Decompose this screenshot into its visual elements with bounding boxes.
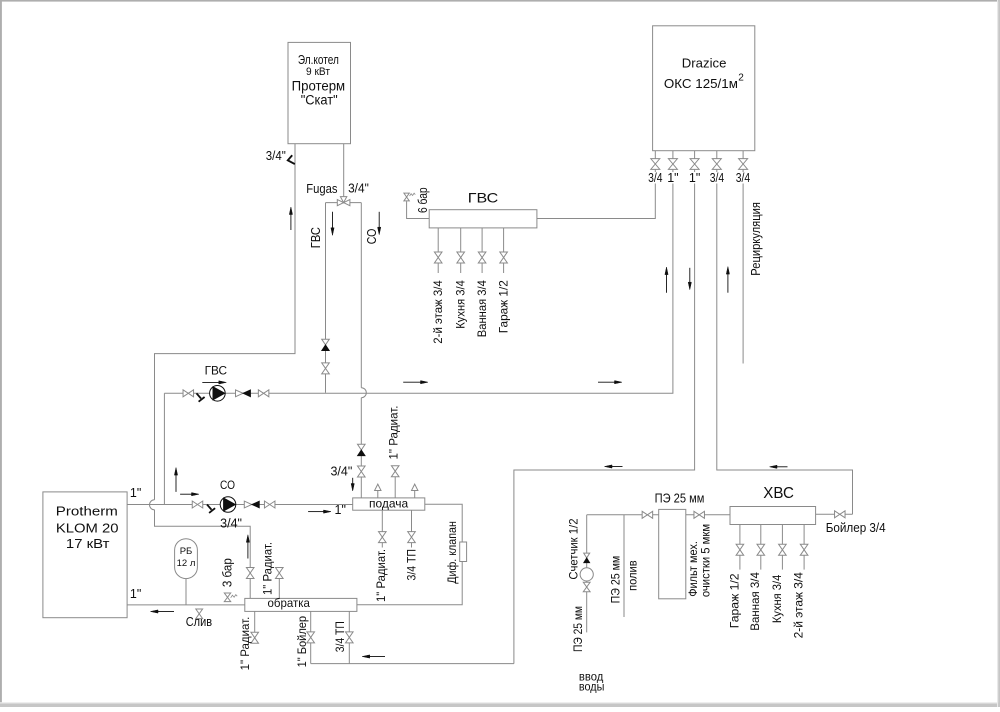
filter box (659, 509, 686, 598)
arrow down SO branch (378, 212, 381, 235)
label SO branch rotated (365, 228, 379, 244)
boiler el.kotel Protherm Skat box (288, 42, 351, 143)
tank Drazice OKC box (653, 26, 755, 151)
svg-text:6 бар: 6 бар (416, 187, 430, 213)
label HVS title (763, 485, 794, 502)
svg-text:воды: воды (579, 679, 605, 693)
valve obratka bottom TP (346, 632, 354, 643)
label GVS pump (205, 366, 227, 378)
air vent podacha 2 (412, 484, 418, 490)
arrow up obratka riser (246, 535, 249, 559)
wire: Protherm supply to SO pump to podacha (127, 504, 353, 506)
svg-text:2: 2 (738, 73, 744, 84)
label filter rotated (686, 524, 712, 597)
svg-text:3/4": 3/4" (330, 465, 352, 479)
wire: HVS manifold drop Garazh (739, 525, 741, 570)
svg-text:Гараж 1/2: Гараж 1/2 (727, 573, 741, 628)
strainer SO pump (207, 505, 215, 513)
valve HVS drop 4 (800, 544, 808, 555)
valve before filter (642, 511, 653, 518)
svg-text:подача: подача (369, 496, 409, 510)
label HVS drop 4 rotated (792, 572, 806, 639)
valve obratka riser 3/4 (246, 568, 254, 579)
svg-text:3/4 ТП: 3/4 ТП (333, 621, 347, 652)
page frame faint inner bottom line (0, 702, 1000, 703)
wire: obratka top port 1" Radiat. (278, 579, 280, 599)
svg-text:Счетчик 1/2: Счетчик 1/2 (567, 518, 581, 579)
page frame shadow bottom (0, 704, 1000, 708)
valve Drazice 5 (739, 159, 748, 170)
pump GVS (210, 386, 226, 402)
svg-text:СО: СО (365, 228, 379, 244)
label Boiler 3/4 (826, 520, 886, 535)
valve GVS pump outlet (258, 390, 269, 397)
wire: expansion tank stem (185, 579, 187, 605)
valve HVS drop 1 (736, 544, 744, 555)
svg-text:Диф. клапан: Диф. клапан (445, 521, 459, 584)
svg-text:KLOM 20: KLOM 20 (56, 521, 119, 535)
wire: Drazice stub 2 (672, 151, 674, 170)
valve SO pump inlet (192, 501, 203, 508)
svg-text:Ванная 3/4: Ванная 3/4 (748, 572, 762, 631)
valve podacha bottom TP (408, 532, 416, 543)
wire: podacha bottom port 3/4 TP (411, 510, 413, 547)
label 1 Radiat podacha top rotated (387, 406, 401, 460)
valve HVS drop 3 (779, 544, 787, 555)
wire: SO branch down to podacha with hop (361, 203, 366, 498)
svg-text:1" Радиат.: 1" Радиат. (374, 549, 388, 602)
valve HVS drop 2 (757, 544, 765, 555)
label 3/4 TP obratka bottom rotated (333, 621, 347, 652)
svg-text:ПЭ 25 мм: ПЭ 25 мм (609, 556, 623, 604)
label PE25 inlet rotated (571, 606, 585, 652)
arrow up Drazice coil in (665, 267, 668, 293)
wire: obratka 3/4 boiler riser (0, 0, 1, 1)
manifold podacha box (353, 498, 425, 510)
label Schetchik rotated (567, 518, 581, 579)
svg-text:2-й этаж 3/4: 2-й этаж 3/4 (792, 572, 806, 639)
svg-text:"Скат": "Скат" (301, 93, 338, 108)
svg-text:1" Бойлер: 1" Бойлер (295, 616, 309, 668)
svg-text:1" Радиат.: 1" Радиат. (261, 542, 275, 595)
arrow left return header (362, 655, 385, 658)
svg-text:1": 1" (689, 171, 700, 185)
wire: GVS manifold left feed with safety stub (407, 201, 430, 218)
svg-text:12 л: 12 л (177, 558, 196, 569)
valve obratka bottom radiat (251, 632, 259, 643)
wire: podacha air vent stub 1 (377, 491, 379, 498)
label poliv rotated (626, 560, 640, 591)
svg-text:3/4": 3/4" (348, 182, 369, 196)
wire: Drazice stub 3 (694, 151, 696, 170)
label Fugas (306, 182, 337, 196)
air vent podacha 1 (375, 484, 381, 490)
valve podacha bottom radiat (379, 532, 387, 543)
wire: obratka bottom port 3/4 TP (348, 611, 350, 663)
label 1 Radiat obratka bottom rotated (238, 617, 252, 671)
wire: diff valve bypass podacha to obratka (357, 504, 462, 604)
svg-text:1": 1" (667, 171, 678, 185)
valve SO pump outlet (264, 501, 275, 508)
label GVS drop 2 rotated (454, 280, 468, 329)
expansion tank RB capsule (175, 539, 198, 579)
svg-text:3/4: 3/4 (648, 171, 662, 185)
valve Drazice 4 (712, 159, 721, 170)
arrow right podacha inlet (308, 510, 331, 513)
wire: GVS manifold drop 2-j etazh (437, 228, 439, 273)
valve drain Sliv (196, 609, 203, 619)
arrow left HVS feed header (770, 465, 788, 468)
label GVS drop 3 rotated (475, 280, 489, 337)
wire: el.boiler GVS supply 3/4 riser down-left-down to 3/4 header (150, 144, 296, 599)
arrow down SO drop (351, 478, 354, 491)
label 3 bar rotated (221, 558, 235, 587)
svg-text:Протерм: Протерм (292, 79, 346, 94)
label 3/4 Fugas (348, 182, 369, 196)
check valve GVS branch (322, 339, 330, 350)
wire: Protherm return line (127, 604, 245, 606)
svg-text:Эл.котел: Эл.котел (298, 52, 339, 67)
expansion tank label (177, 546, 196, 569)
valve GVS branch (322, 363, 330, 374)
page frame shadow right (998, 0, 1000, 707)
wire: el.boiler outlet to Fugas valve (343, 144, 345, 197)
svg-text:1": 1" (335, 503, 346, 517)
wire: GVS manifold drop Vannaya (481, 228, 483, 273)
wire: obratka bottom port 1" Boiler (310, 611, 312, 663)
valve Drazice 3 (690, 159, 699, 170)
arrow down Drazice coil out (688, 268, 691, 290)
label podacha (369, 496, 409, 510)
wire: HVS manifold drop Vannaya (760, 525, 762, 570)
valve after filter (694, 511, 705, 518)
valve Drazice 2 (668, 159, 677, 170)
svg-text:3/4: 3/4 (710, 171, 724, 185)
valve GVS drop 4 (500, 252, 508, 263)
wire: Drazice stub 4 (716, 151, 718, 170)
arrow right above GVS pump (202, 381, 226, 384)
svg-text:3/4": 3/4" (220, 517, 242, 531)
svg-text:1" Радиат.: 1" Радиат. (387, 406, 401, 460)
label HVS drop 3 rotated (770, 574, 784, 623)
label 1 Radiat obratka top rotated (261, 542, 275, 595)
wire: HVS manifold drop Kuhnya (781, 525, 783, 570)
wire: podacha bottom port 1" Radiat. (381, 510, 383, 547)
svg-text:СО: СО (220, 480, 235, 492)
manifold GVS box (429, 210, 537, 228)
wire: HVS boiler feed to Drazice (717, 169, 853, 514)
svg-text:Кухня 3/4: Кухня 3/4 (770, 574, 784, 623)
label 6 bar rotated (416, 187, 430, 213)
svg-text:Drazice: Drazice (682, 55, 727, 70)
wire: GVS branch down to pump line (325, 203, 327, 393)
wire: Drazice stub 5 recirculation (742, 151, 744, 364)
arrow down GVS branch (331, 212, 334, 236)
svg-text:Ванная 3/4: Ванная 3/4 (475, 280, 489, 337)
svg-text:3/4 ТП: 3/4 ТП (405, 549, 419, 581)
water meter circle (580, 568, 593, 581)
boiler Protherm label (56, 505, 119, 552)
label SO pump (220, 480, 235, 492)
svg-text:Рециркуляция: Рециркуляция (749, 202, 763, 276)
svg-text:обратка: обратка (268, 596, 311, 610)
svg-text:3/4": 3/4" (266, 149, 286, 163)
manifold HVS box (730, 507, 816, 525)
arrow up Drazice feed (726, 267, 729, 293)
svg-text:3/4: 3/4 (736, 171, 750, 185)
arrow left Protherm return (151, 610, 175, 613)
arrow up el.boiler riser (289, 207, 292, 230)
arrow right GVS line a (403, 381, 428, 384)
valve podacha top radiat (391, 466, 399, 477)
label 3/4 riser (220, 517, 242, 531)
label GVS branch rotated (309, 227, 323, 248)
label 3/4 TP podacha bottom rotated (405, 549, 419, 581)
wire: podacha air vent stub 2 (414, 491, 416, 498)
svg-text:ГВС: ГВС (309, 227, 323, 248)
svg-text:ХВС: ХВС (763, 485, 794, 502)
strainer GVS pump (197, 393, 205, 401)
svg-text:2-й этаж 3/4: 2-й этаж 3/4 (431, 280, 445, 344)
valve obratka top radiat (276, 568, 284, 579)
valve Drazice 1 (651, 159, 660, 170)
label PE25 poliv rotated (609, 556, 623, 604)
label GVS drop 1 rotated (431, 280, 445, 344)
svg-text:Слив: Слив (186, 614, 212, 629)
svg-text:1": 1" (130, 486, 141, 500)
wire: return header under obratka (311, 663, 514, 665)
manifold obratka box (245, 598, 357, 611)
arrow left Drazice out header (605, 465, 623, 468)
wire: Drazice stub 1 (654, 151, 656, 170)
label vvod vody (579, 670, 605, 694)
label 3/4 el.boiler (266, 149, 286, 163)
label 1 Radiat podacha bottom rotated (374, 549, 388, 602)
svg-text:Кухня 3/4: Кухня 3/4 (454, 280, 468, 329)
svg-text:Гараж 1/2: Гараж 1/2 (497, 280, 511, 333)
label GVS drop 4 rotated (497, 280, 511, 333)
boiler el.kotel label (292, 52, 346, 108)
wire: poliv drop (623, 515, 625, 617)
svg-text:ПЭ 25 мм: ПЭ 25 мм (571, 606, 585, 652)
wire: GVS pump line to Drazice coil inlet (164, 169, 673, 393)
svg-text:ПЭ 25 мм: ПЭ 25 мм (655, 491, 705, 506)
svg-text:9 кВт: 9 кВт (306, 66, 330, 78)
label Drazice ports (646, 171, 752, 185)
svg-text:ОКС 125/1м: ОКС 125/1м (664, 76, 738, 91)
label Recirculation rotated (749, 202, 763, 276)
check valve SO pump (244, 501, 259, 508)
svg-text:очистки 5 мкм: очистки 5 мкм (699, 524, 713, 597)
valve GVS drop 1 (434, 252, 442, 263)
valve SO branch (358, 466, 366, 477)
safety valve 6 bar GVS (404, 193, 415, 201)
boiler Protherm KLOM box (43, 492, 127, 618)
svg-text:Fugas: Fugas (306, 182, 337, 196)
valve HVS right boiler (835, 511, 846, 518)
arrow right GVS line b (598, 381, 622, 384)
svg-text:Бойлер 3/4: Бойлер 3/4 (826, 520, 886, 535)
wire: cold water main to HVS manifold (587, 514, 730, 516)
arrow right SO supply (180, 493, 199, 496)
tank Drazice label (664, 55, 744, 91)
valve water meter (583, 582, 590, 591)
page frame shadow left (0, 0, 2, 707)
wire: HVS manifold drop 2-j etazh (803, 525, 805, 570)
label 1 inch podacha (335, 503, 346, 517)
svg-text:полив: полив (626, 560, 640, 591)
diff valve body (460, 542, 467, 562)
page frame shadow top (0, 0, 1000, 2)
wire: GVS manifold drop Garazh (503, 228, 505, 273)
check valve water meter (584, 553, 590, 563)
svg-text:ГВС: ГВС (468, 189, 499, 205)
page frame faint inner right line (997, 0, 998, 707)
valve GVS drop 3 (478, 252, 486, 263)
valve GVS drop 2 (457, 252, 465, 263)
svg-text:1" Радиат.: 1" Радиат. (238, 617, 252, 671)
pump SO (220, 497, 236, 513)
svg-text:17 кВт: 17 кВт (66, 537, 110, 551)
wire: obratka bottom port 1" Radiat. (254, 611, 256, 643)
wire: Fugas header (326, 202, 362, 204)
valve Fugas three-way (337, 197, 350, 206)
wire: GVS manifold right to Drazice (537, 169, 655, 218)
label HVS drop 1 rotated (727, 573, 741, 628)
wire: water meter riser (586, 515, 588, 633)
label GVS title (468, 189, 499, 205)
safety valve 3 bar (224, 593, 237, 602)
valve obratka bottom boiler (307, 632, 315, 643)
wire: podacha top SO entry (0, 0, 1, 1)
label Sliv (186, 614, 212, 629)
label 1 inch top (130, 486, 141, 500)
wire: Drazice coil outlet down-left-down to return header (514, 169, 695, 663)
label HVS drop 2 rotated (748, 572, 762, 631)
svg-text:1": 1" (130, 587, 141, 601)
svg-text:Protherm: Protherm (56, 505, 118, 519)
arrow up to GVS pump branch (174, 468, 177, 492)
label 1 inch bottom (130, 587, 141, 601)
valve GVS pump inlet (183, 390, 194, 397)
check valve SO branch (358, 444, 366, 455)
svg-text:РБ: РБ (180, 546, 193, 557)
wire: HVS manifold right to valve corner (816, 513, 853, 515)
pipe size tick 3/4 (288, 155, 295, 164)
label PE25 filter (655, 491, 705, 506)
label 3/4 SO drop (330, 465, 352, 479)
check valve GVS pump (236, 390, 251, 397)
wire: GVS manifold drop Kuhnya (460, 228, 462, 273)
label obratka (268, 596, 311, 610)
svg-text:ГВС: ГВС (205, 366, 227, 378)
wire: podacha top port 1" Radiat. (394, 466, 396, 498)
label Diff valve rotated (445, 521, 459, 584)
wire: GVS pump suction drop (163, 393, 165, 504)
svg-text:3 бар: 3 бар (221, 558, 235, 587)
label 1 Boiler obratka bottom rotated (295, 616, 309, 668)
